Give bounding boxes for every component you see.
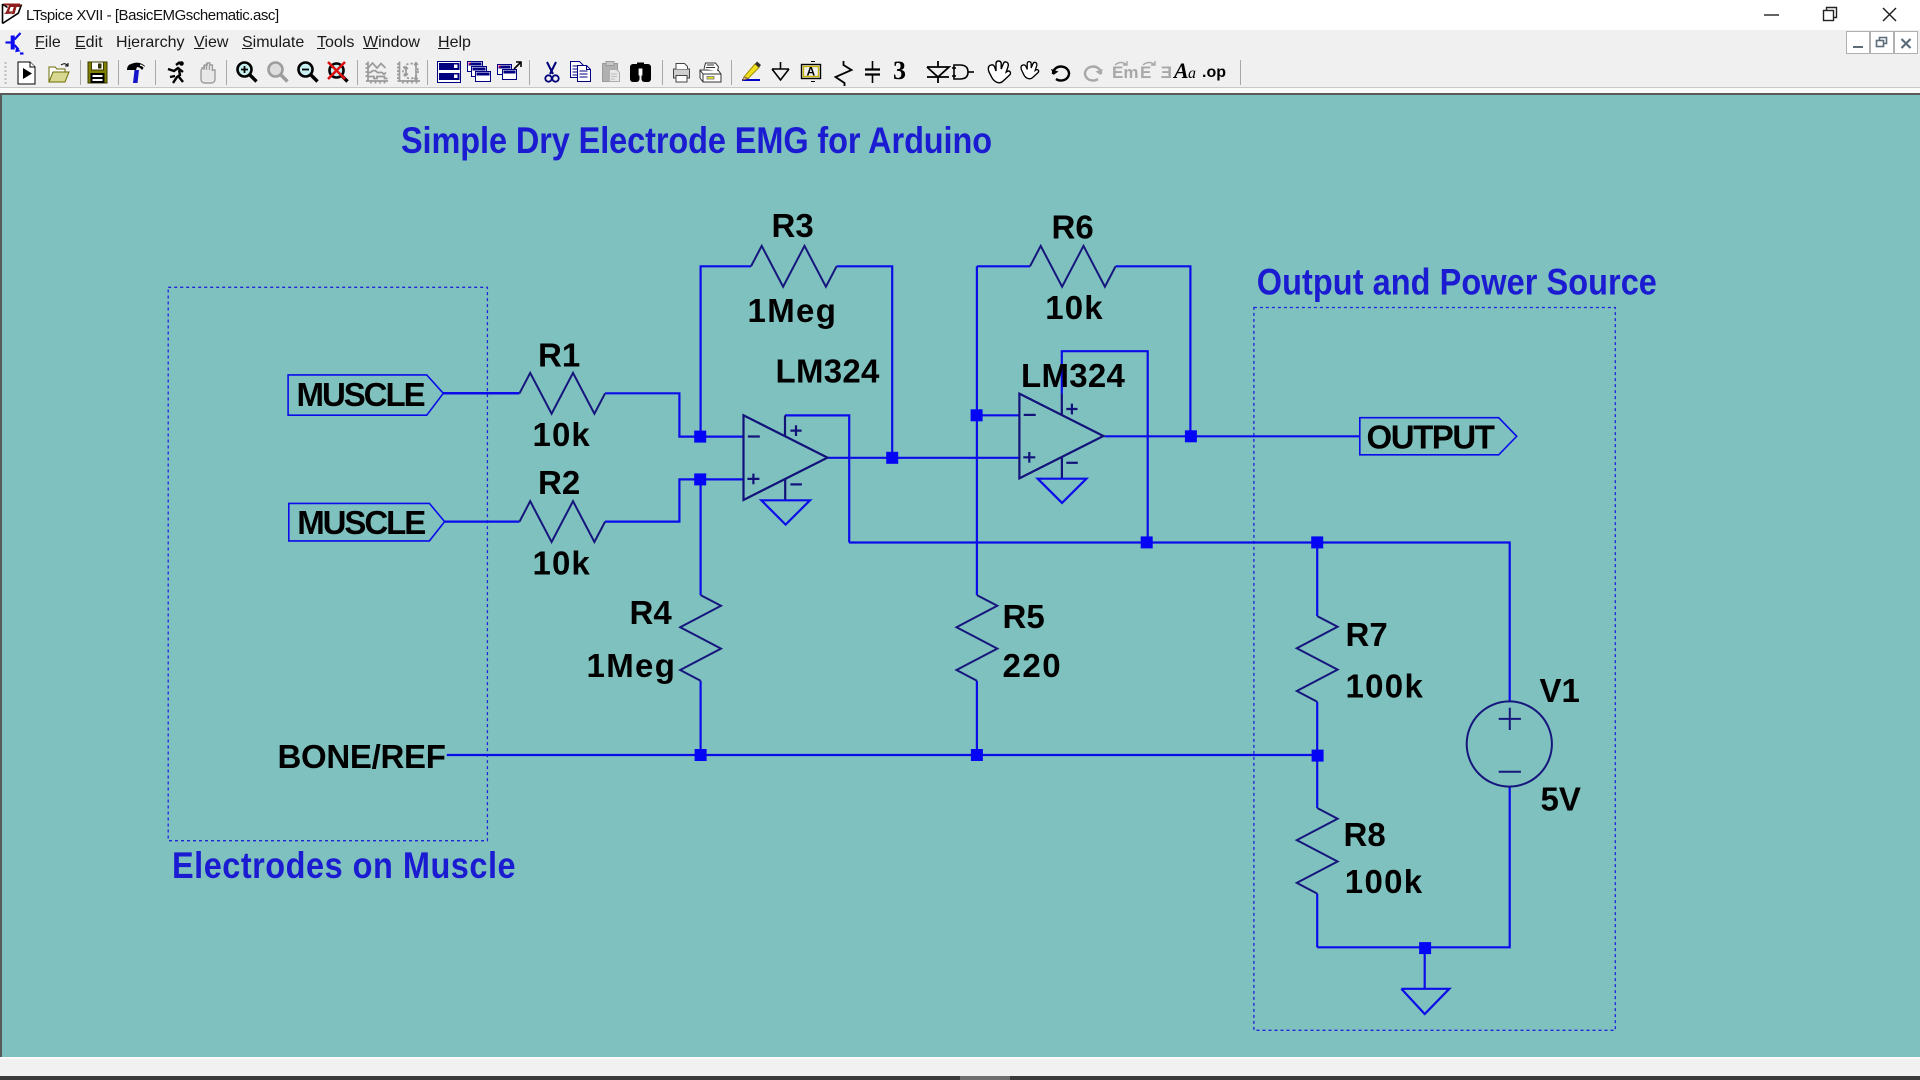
label R6: [1052, 208, 1094, 245]
wire R4 to BONE/REF net: [699, 681, 701, 755]
comment text: Output and Power Source: [1257, 261, 1657, 303]
junction U2 inverting input node: [971, 409, 983, 421]
junction U1 output node: [886, 452, 898, 464]
wire R6 left lead: [977, 265, 1030, 267]
svg-text:BONE/REF: BONE/REF: [278, 738, 446, 775]
document icon (transistor schematic glyph): [6, 33, 24, 54]
svg-text:MUSCLE: MUSCLE: [297, 376, 425, 413]
svg-text:100k: 100k: [1345, 863, 1424, 900]
junction U1 inverting input node: [694, 431, 706, 443]
wire R6 right leg to U2 output: [1116, 266, 1191, 436]
svg-text:a: a: [1188, 65, 1196, 82]
label LM324 (U1): [776, 352, 881, 389]
op-amp U2 LM324: [1019, 394, 1103, 479]
resistor R7: [1297, 616, 1338, 702]
resistor R2: [520, 501, 606, 542]
voltage source V1: [1467, 701, 1552, 786]
label R1: [538, 337, 580, 374]
MDI child minimize button: [1847, 32, 1870, 54]
svg-text:100k: 100k: [1346, 668, 1425, 705]
wire U2 inverting column R6-R5: [976, 266, 978, 595]
svg-text:10k: 10k: [533, 416, 591, 453]
label LM324 (U2): [1021, 357, 1126, 394]
ground below U2: [1038, 479, 1087, 503]
wire rail junction down to R7: [1316, 542, 1318, 616]
svg-text:E: E: [1161, 63, 1172, 82]
wire U1 V+ to 5V rail: [785, 415, 849, 542]
svg-text:1Meg: 1Meg: [748, 292, 838, 329]
MDI child restore button: [1871, 32, 1894, 54]
wire R3 feedback left leg: [701, 266, 751, 436]
svg-text:10k: 10k: [533, 545, 591, 582]
label R4: [630, 594, 673, 631]
wire bottom ground net to V1 minus: [1317, 787, 1510, 948]
svg-text:MUSCLE: MUSCLE: [297, 504, 425, 541]
svg-text:E: E: [1140, 63, 1151, 82]
svg-text:5V: 5V: [1541, 781, 1581, 818]
svg-text:R7: R7: [1346, 616, 1388, 653]
svg-text:Simple Dry Electrode EMG for A: Simple Dry Electrode EMG for Arduino: [401, 120, 992, 162]
wire R3 feedback right leg: [837, 266, 893, 458]
svg-text:A: A: [807, 65, 816, 79]
label R3: [772, 207, 814, 244]
junction BONE/REF at R5: [971, 749, 983, 761]
value 100k (R7): [1346, 668, 1425, 705]
svg-text:R4: R4: [630, 594, 673, 631]
net flag MUSCLE (bottom electrode): [289, 503, 445, 541]
comment text: schematic title: [401, 120, 992, 162]
label V1: [1540, 672, 1580, 709]
wire R2 to U1 non-inverting input: [605, 479, 744, 521]
junction 5V rail at U2 power leg: [1141, 536, 1153, 548]
wire 5V rail to V1 top: [849, 543, 1510, 702]
label R7: [1346, 616, 1388, 653]
wire R8 bottom to ground net: [1316, 894, 1318, 948]
resistor R4: [680, 595, 721, 681]
svg-text:OUTPUT: OUTPUT: [1367, 419, 1495, 456]
junction BONE/REF at R4: [695, 749, 707, 761]
wire MUSCLE2 to R2: [445, 520, 520, 522]
svg-text:V1: V1: [1540, 672, 1580, 709]
wire BONE/REF horizontal net: [447, 754, 1318, 756]
wire R5 bottom to BONE/REF: [976, 681, 978, 755]
op-amp U1 LM324: [744, 415, 828, 500]
svg-text:.op: .op: [1202, 64, 1226, 81]
junction 5V rail at R7: [1311, 536, 1323, 548]
ground at bottom net: [1401, 948, 1449, 1014]
svg-text:LM324: LM324: [1021, 357, 1126, 394]
svg-text:R6: R6: [1052, 208, 1094, 245]
dashed box: Electrodes on Muscle region: [168, 287, 487, 840]
value 1Meg (R4): [587, 647, 677, 684]
net label BONE/REF: [278, 738, 446, 775]
svg-text:R8: R8: [1344, 816, 1386, 853]
svg-text:R5: R5: [1003, 598, 1045, 635]
junction bottom ground net: [1419, 942, 1431, 954]
svg-text:A: A: [1172, 58, 1189, 83]
value 1Meg (R3): [748, 292, 838, 329]
LTspice app icon: [3, 4, 22, 24]
svg-text:R3: R3: [772, 207, 814, 244]
resistor R3: [751, 246, 837, 287]
junction U2 output node: [1185, 430, 1197, 442]
wire U1 non-inverting junction to R4: [699, 479, 701, 595]
net flag MUSCLE (top electrode): [288, 375, 443, 415]
resistor R5: [957, 595, 998, 681]
wire MUSCLE1 to R1: [443, 392, 519, 395]
net flag OUTPUT: [1360, 418, 1517, 456]
svg-text:R1: R1: [538, 337, 580, 374]
label R8: [1344, 816, 1386, 853]
dashed box: Output and Power Source region: [1254, 308, 1615, 1031]
window close: [1883, 8, 1896, 21]
wire U2 V+ to 5V rail: [1062, 351, 1148, 542]
wire U1 output to U2 non-inverting input: [828, 457, 1019, 459]
label R5: [1003, 598, 1045, 635]
value 10k (R1): [533, 416, 591, 453]
wire R7 to R8 through BONE/REF junction: [1316, 702, 1318, 808]
value 5V (V1): [1541, 781, 1581, 818]
MDI child close button: [1895, 32, 1918, 54]
comment text: Electrodes on Muscle: [172, 845, 516, 887]
wire R1 to U1 inverting input: [605, 393, 744, 436]
label R2: [538, 464, 580, 501]
svg-text:220: 220: [1003, 647, 1063, 684]
wire U2 inverting input stub: [977, 414, 1020, 416]
value 220 (R5): [1003, 647, 1063, 684]
value 10k (R6): [1045, 289, 1103, 326]
window maximize (restore): [1824, 8, 1837, 21]
svg-text:Em: Em: [1112, 63, 1138, 82]
resistor R8: [1297, 808, 1338, 894]
value 100k (R8): [1345, 863, 1424, 900]
svg-text:3: 3: [893, 56, 906, 85]
svg-text:1Meg: 1Meg: [587, 647, 677, 684]
svg-text:Electrodes on Muscle: Electrodes on Muscle: [172, 845, 516, 887]
junction U1 non-inverting input node: [694, 473, 706, 485]
svg-text:LM324: LM324: [776, 352, 881, 389]
svg-text:10k: 10k: [1045, 289, 1103, 326]
ground below U1: [761, 500, 810, 524]
junction BONE/REF at R7-R8: [1312, 750, 1324, 762]
resistor R1: [520, 373, 606, 414]
svg-text:R2: R2: [538, 464, 580, 501]
window minimize: [1764, 14, 1779, 16]
value 10k (R2): [533, 545, 591, 582]
wire U2 output to OUTPUT flag: [1105, 435, 1360, 437]
resistor R6: [1030, 246, 1116, 287]
svg-text:Output and Power Source: Output and Power Source: [1257, 261, 1657, 303]
